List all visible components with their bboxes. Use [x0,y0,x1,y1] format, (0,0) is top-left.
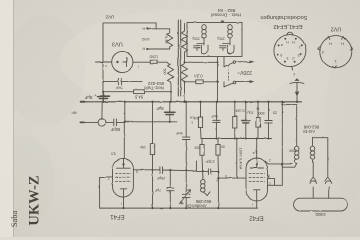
svg-text:1M: 1M [189,116,194,120]
left margin vertical text [9,175,43,227]
svg-text:953-022: 953-022 [147,81,164,86]
left tube cathode [120,189,126,197]
box 60 below rail [217,139,219,145]
bus nodes [102,101,298,103]
svg-text:UV2: UV2 [105,15,114,20]
svg-text:5nF: 5nF [175,131,182,136]
left tube anode dot + bar [122,163,124,165]
node UV3 left [102,61,104,63]
folded dipole [294,198,348,211]
fuse 0,3A box [196,80,203,84]
svg-text:5: 5 [280,53,282,57]
wire: bus down x124.8 to tube top [124,102,126,122]
svg-text:2: 2 [293,72,295,76]
svg-text:Netz-Trafo: Netz-Trafo [144,85,164,90]
ant feed wire [282,104,296,146]
trimmer capacitor [185,170,187,192]
right tube grids dashed [249,173,265,181]
svg-text:2: 2 [298,53,300,57]
tube EF42 right envelope [246,158,268,201]
tube pin letters [105,64,271,206]
ant coil2 top loop wire [313,138,328,177]
wire: bus to connector [101,102,103,119]
capacitor 5nF (UV3 cathode) [103,78,142,84]
HV winding 500 zigzag [168,64,174,82]
svg-text:6,3V: 6,3V [164,36,168,44]
choke 2 cap [220,44,235,54]
column 200.5 box [200,102,202,117]
fuse 0,3A wire [185,81,218,83]
main bus (ground rail) [81,101,302,103]
svg-text:1W:: 1W: [140,145,146,149]
ant coil1 bottom wire to tube pin2 [281,163,297,167]
switch lower wire + arrow [236,81,251,83]
Heiz-Drossel box [187,23,242,57]
electrolytic 8uF left plates [98,96,110,98]
right tube cathode to bus [256,201,258,208]
svg-text:250µ: 250µ [192,36,199,40]
svg-text:2,5pF: 2,5pF [205,160,215,164]
node winding/54,5 line [170,91,172,93]
left margin rule [13,0,15,237]
svg-text:220V~: 220V~ [237,69,252,75]
svg-text:240Ω: 240Ω [315,212,325,217]
svg-text:UV3: UV3 [112,40,123,46]
switch upper lever [224,63,233,67]
wire: UV3 right lead to resistor 120 [133,61,150,63]
grid wire y170 [133,169,160,171]
svg-text:Sockelschaltungen: Sockelschaltungen [261,14,308,20]
electrolytic 8uF stubs [102,92,104,102]
svg-text:500: 500 [258,111,264,115]
anoden-dr coil column [202,175,204,179]
screen wire right tube [218,177,246,179]
column 218.4 down [217,172,219,209]
svg-text:NF: NF [71,111,77,116]
svg-text:500: 500 [163,69,167,75]
resistor 54,5 box [134,90,145,94]
wire: resistor 120 to winding tap [157,62,169,64]
NF rail [125,121,177,123]
svg-text:10µ: 10µ [246,110,253,114]
switch lower lever [224,83,233,87]
choke 2 loops [228,25,230,44]
column 152.5: wire, 1W box [152,102,154,144]
transformer core [178,20,180,96]
svg-text:7pF: 7pF [154,188,161,192]
tube UV3 cathode dot [116,61,118,63]
svg-text:25pF: 25pF [156,176,165,180]
anode feed wire [256,139,258,159]
choke 1 loops [202,25,204,44]
svg-text:a: a [253,151,255,155]
svg-text:H: H [142,47,145,51]
wire connector to 50pF [106,121,114,123]
wire: UV3 heater loop top [103,23,156,62]
svg-text:a: a [281,43,283,47]
hooks [310,181,317,184]
right tube cathode [254,190,261,201]
svg-text:862-048: 862-048 [303,125,319,130]
wire: primary tap to switch column [185,61,218,63]
ant coil 2 [312,138,314,146]
svg-text:5nF: 5nF [211,114,218,119]
node H lower [146,48,148,50]
svg-text:5: 5 [225,174,227,178]
svg-text:8µF: 8µF [156,106,164,111]
svg-text:2: 2 [269,158,271,162]
bottom bus [100,207,258,209]
wire: HV winding bottom down to bus [170,82,173,102]
socket pin letters right [322,41,344,63]
svg-text:7: 7 [108,177,110,181]
svg-text:8µF: 8µF [84,95,92,100]
column 282.3 [281,102,283,186]
node on 103 at 81.6 [102,81,104,83]
svg-text:Ant-Dr: Ant-Dr [302,129,315,134]
svg-text:UKW-Z: UKW-Z [27,175,43,225]
svg-text:g: g [268,175,270,179]
column 234.8 box 0,1M [234,102,236,117]
svg-text:1: 1 [335,59,337,63]
column 186: 5nF cap and trimmer [185,102,187,137]
column 258 box 500 [257,102,259,118]
dipole feed left [312,162,314,177]
tube EF42 left envelope [113,158,134,197]
right tube C wire [268,184,283,186]
socket EF41/EF42 [274,35,306,67]
electrolytic 8uF (second) [169,102,171,112]
svg-text:H: H [341,41,344,45]
right tube anode [256,163,258,165]
svg-text:120Ω: 120Ω [149,55,158,59]
left tube grids dashed [116,174,131,182]
svg-text:54,5: 54,5 [134,95,143,100]
wire: vertical 103 down to bus [102,62,104,102]
svg-text:EF41,EF42: EF41,EF42 [273,23,302,29]
svg-text:H: H [329,41,332,45]
svg-text:50pF: 50pF [110,127,120,132]
svg-text:862-286: 862-286 [195,199,211,204]
svg-text:EF41: EF41 [110,213,125,219]
svg-text:5nF: 5nF [115,85,122,90]
switch upper wire + arrow [236,61,251,63]
svg-text:S: S [136,170,138,174]
svg-text:1: 1 [299,45,301,49]
svg-text:0,1M: 0,1M [236,109,245,114]
svg-text:EF42: EF42 [249,214,264,220]
wire 50pF to NF rail [116,121,124,123]
socket UV2 [320,36,352,68]
heater winding 6,3V zigzag [167,29,173,49]
capacitor 50pF [114,119,117,126]
svg-text:H: H [142,26,145,30]
7pF column [169,170,171,188]
tube UV3 anode [123,58,127,67]
svg-text:1k: 1k [256,106,260,110]
svg-text:0,3A: 0,3A [194,74,203,79]
switch link dashed [228,66,230,82]
node 103/91.7 [102,91,104,93]
svg-text:Anoden-Dr: Anoden-Dr [186,204,207,209]
tube UV3 envelope [112,51,133,72]
wire: box to bus (x217.5) [217,57,219,102]
svg-text:1500: 1500 [289,148,297,152]
wire: box to switch pole [223,57,225,67]
svg-text:Heiz - Drossel: Heiz - Drossel [211,12,241,18]
wire: UV3 left lead [96,61,112,63]
svg-text:2: 2 [322,50,324,54]
NF output wire [80,121,98,123]
ant coil 1 [294,146,296,163]
NF connector circle [98,119,105,126]
right tube pin2 wire [265,161,292,164]
svg-text:20k: 20k [194,145,200,149]
left page edge shading [0,0,13,237]
wire: H lower to heater winding [147,48,169,50]
primary winding upper zigzag [182,24,188,63]
node H upper [146,28,148,30]
column 268.5 cap 25 [268,102,270,121]
column 245.8 elko 10uF [245,102,247,121]
socket pin letters left [280,40,301,76]
svg-text:250µ: 250µ [217,36,224,40]
mid rail [201,138,272,140]
svg-text:UV2: UV2 [141,37,150,42]
svg-text:8,5: 8,5 [111,151,116,155]
right tube g wire [268,179,275,186]
primary winding lower zigzag [182,64,188,82]
resistor 120 box [150,60,157,64]
resistor 54,5 line [103,91,171,93]
screen feed from rail [236,139,238,179]
box 20k below rail [201,139,203,145]
svg-text:3: 3 [287,56,289,60]
svg-text:60: 60 [221,145,225,149]
antenna symbol [290,82,304,83]
svg-text:25: 25 [273,110,277,114]
stub up at 196.4 [195,162,197,171]
wire to 2,5pF cap [196,170,208,172]
svg-text:Saba: Saba [9,211,19,228]
wire: primary bottom junction [184,81,186,83]
svg-text:100V 0,4mA: 100V 0,4mA [239,147,244,169]
column 216.4 cap 5nF [215,102,217,120]
choke 1 cap [194,44,209,54]
wire: H upper to heater winding [147,28,169,30]
svg-text:UV2: UV2 [331,26,342,32]
svg-text:+: + [94,92,97,97]
left tube pins [100,176,113,178]
